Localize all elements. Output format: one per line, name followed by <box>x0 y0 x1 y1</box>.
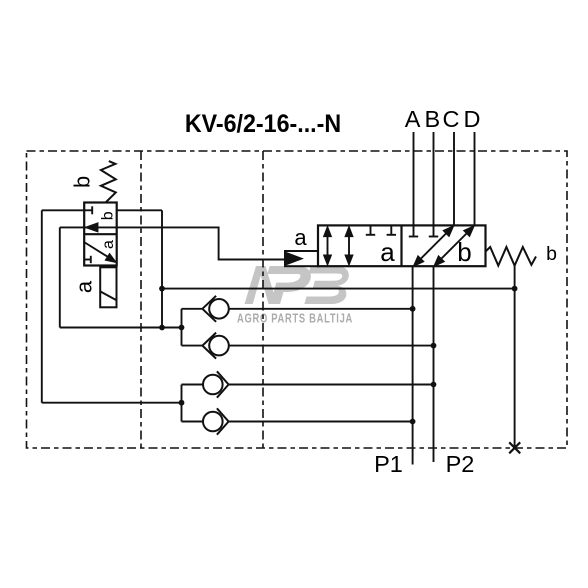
wire CV2 input <box>182 345 203 347</box>
node supply tee <box>159 286 165 292</box>
dashed enclosure border <box>27 151 568 448</box>
section divider line 1 <box>140 151 142 448</box>
wire CV1-CV2 bracket <box>181 309 183 346</box>
drain junction node <box>512 286 518 292</box>
wire CV4 output <box>229 421 413 423</box>
wire pilot a-port left vertical <box>59 227 61 327</box>
section divider line 2 <box>262 151 264 448</box>
wire CV1 input <box>182 308 203 310</box>
check valve CV2 <box>202 333 228 359</box>
pilot actuator box of main valve <box>285 251 318 266</box>
wire port line C <box>453 132 455 225</box>
wire port line D <box>474 132 476 225</box>
wire port line A <box>409 132 418 237</box>
svg-text:a: a <box>71 280 96 293</box>
node P1-CV1 <box>410 306 416 312</box>
wire CV3 output <box>229 384 434 386</box>
wire CV2 output <box>229 345 434 347</box>
solenoid L1 <box>100 267 116 307</box>
svg-text:b: b <box>457 237 471 267</box>
node bracket tee <box>159 325 165 331</box>
svg-text:a: a <box>100 240 117 249</box>
node P1-CV4 <box>410 419 416 425</box>
svg-text:b: b <box>100 211 117 220</box>
main valve U1 body <box>318 225 486 266</box>
valve position b diagonal arrow 1 <box>414 227 453 266</box>
svg-text:B: B <box>425 106 441 132</box>
wire port line B <box>429 132 438 237</box>
node top bracket <box>179 325 185 331</box>
svg-text:A: A <box>405 106 421 132</box>
svg-text:P2: P2 <box>446 451 475 477</box>
wire P2 vertical <box>433 266 435 462</box>
wire CV3 input <box>182 384 204 386</box>
svg-text:D: D <box>464 106 481 132</box>
wire to top bracket <box>60 327 182 329</box>
check valve CV3 <box>203 371 229 397</box>
main valve return spring <box>486 247 537 266</box>
valve position a double arrow 1 <box>324 228 331 264</box>
wire pilot supply horizontal <box>162 288 515 290</box>
wire to bottom bracket <box>42 402 182 404</box>
wire pilot to main valve <box>117 227 285 259</box>
svg-text:P1: P1 <box>374 451 403 477</box>
wire P1 vertical <box>412 266 414 464</box>
wire CV4 input <box>182 421 204 423</box>
watermark APB logo <box>245 266 349 304</box>
check valve CV1 <box>202 296 228 322</box>
svg-text:KV-6/2-16-...-N: KV-6/2-16-...-N <box>185 110 341 138</box>
pilot valve V1 body <box>84 203 117 266</box>
pilot actuator arrow <box>287 253 303 265</box>
pilot valve b flow arrow <box>84 224 117 232</box>
valve position a double arrow 2 <box>346 228 353 264</box>
drain wire from spring <box>514 266 516 448</box>
pilot valve a blocked port <box>84 256 91 263</box>
svg-text:C: C <box>443 106 460 132</box>
svg-text:a: a <box>380 237 395 267</box>
wire pilot b-port left vertical <box>41 210 43 402</box>
wire pilot b-port left horizontal <box>42 209 84 211</box>
valve position a blocked port 2 <box>387 225 396 234</box>
node bottom bracket <box>179 400 185 406</box>
valve position b diagonal arrow 2 <box>435 227 474 266</box>
wire CV1 output <box>229 308 413 310</box>
node P2-CV3 <box>431 382 437 388</box>
svg-text:b: b <box>70 176 95 188</box>
wire CV3-CV4 bracket <box>181 385 183 422</box>
svg-text:AGRO PARTS BALTIJA: AGRO PARTS BALTIJA <box>237 312 353 326</box>
wire pilot a-port left horizontal <box>60 226 84 228</box>
pilot valve a diagonal arrow <box>85 243 115 262</box>
pilot valve spring <box>101 161 116 202</box>
svg-text:a: a <box>294 225 307 250</box>
svg-text:b: b <box>546 243 557 265</box>
wire right drop vertical <box>161 210 163 327</box>
plugged drain X <box>509 442 520 453</box>
valve position a blocked port 1 <box>366 225 375 234</box>
node P2-CV2 <box>431 343 437 349</box>
wire pilot b-port right <box>117 209 162 211</box>
pilot valve b blocked port <box>84 206 92 214</box>
check valve CV4 <box>203 408 229 434</box>
